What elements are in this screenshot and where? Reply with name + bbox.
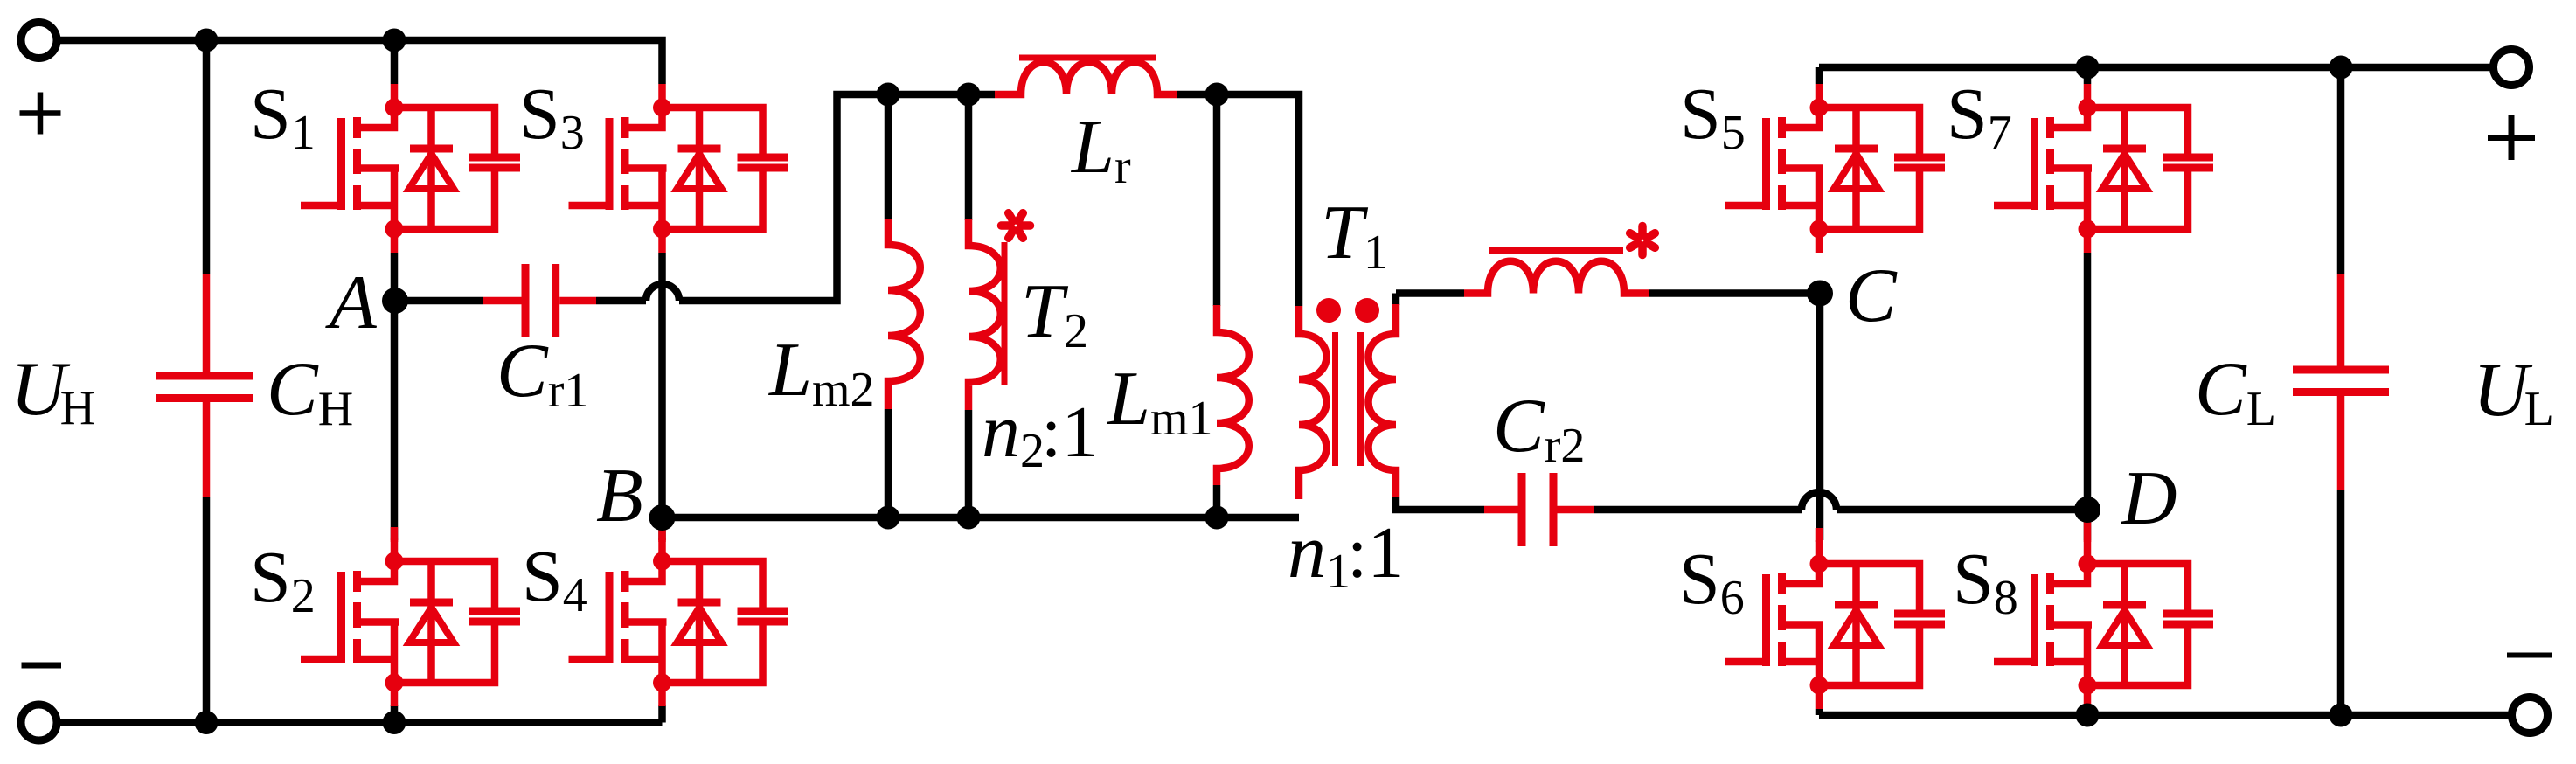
svg-text:Lm2: Lm2 [767,328,875,417]
svg-text:C: C [1845,254,1898,338]
svg-text:S1: S1 [250,73,316,160]
svg-text:S7: S7 [1947,73,2012,160]
svg-text:T2: T2 [1021,269,1088,358]
svg-text:A: A [325,260,378,345]
svg-text:CH: CH [267,347,353,436]
svg-text:Lm1: Lm1 [1106,357,1213,446]
svg-text:Lr: Lr [1070,105,1131,194]
svg-text:S6: S6 [1679,538,1745,625]
svg-text:n2:1: n2:1 [982,389,1098,478]
svg-text:S4: S4 [522,536,587,622]
svg-text:n1:1: n1:1 [1288,510,1404,599]
svg-text:CL: CL [2195,347,2276,436]
svg-text:S2: S2 [250,537,316,623]
svg-text:Cr1: Cr1 [496,329,588,418]
svg-text:S3: S3 [519,73,585,160]
svg-text:D: D [2121,456,2177,541]
svg-text:T1: T1 [1321,191,1388,280]
svg-text:Cr2: Cr2 [1493,384,1585,473]
svg-text:S5: S5 [1680,73,1746,160]
svg-text:UL: UL [2473,348,2554,436]
svg-text:S8: S8 [1953,538,2018,625]
svg-text:B: B [596,454,643,538]
svg-text:UH: UH [10,347,95,435]
